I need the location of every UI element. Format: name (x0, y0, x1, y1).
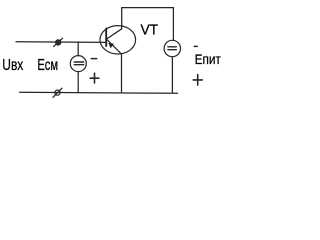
svg-text:Uвх: Uвх (2, 57, 23, 74)
svg-text:VT: VT (141, 21, 159, 38)
svg-text:Епит: Епит (195, 52, 222, 67)
svg-text:Есм: Есм (37, 57, 58, 74)
